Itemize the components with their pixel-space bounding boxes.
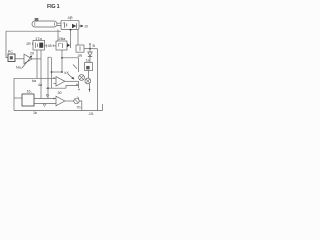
photocell PC box bbox=[8, 54, 15, 62]
svg-text:28a: 28a bbox=[59, 36, 66, 41]
label 10 bbox=[84, 24, 88, 28]
svg-text:1R l: 1R l bbox=[26, 42, 33, 46]
wire comparator lower input rails bbox=[34, 99, 56, 104]
label 1Rl bbox=[26, 42, 33, 46]
transistor Q1 bbox=[79, 75, 85, 81]
feedback arrow Na bbox=[22, 56, 33, 69]
wire long rail left bbox=[14, 77, 56, 79]
svg-text:30: 30 bbox=[58, 91, 62, 95]
svg-text:4a: 4a bbox=[38, 83, 43, 87]
wire bottom rail bbox=[14, 110, 103, 112]
battery cell symbol bbox=[63, 22, 67, 27]
label 1a bbox=[86, 59, 91, 63]
regulator box 2B bbox=[56, 41, 67, 50]
output stub with arrow, node 10 bbox=[79, 25, 84, 28]
junction node o bbox=[47, 94, 49, 96]
supply box 41 bbox=[61, 20, 79, 29]
transistor symbol right of 2B bbox=[67, 43, 70, 49]
wire top rail bbox=[6, 30, 61, 32]
vertical bus D bbox=[51, 58, 53, 88]
wire right drop from output bbox=[78, 81, 80, 88]
wire transistors down bbox=[89, 84, 91, 92]
wire PC to amp bbox=[15, 58, 24, 60]
node B tick bbox=[89, 43, 90, 48]
label 45l bbox=[48, 44, 54, 48]
label 1X bbox=[65, 71, 70, 75]
wire bottom right corner up bbox=[102, 104, 104, 111]
svg-text:2R: 2R bbox=[78, 54, 83, 58]
driver box 1a bbox=[85, 63, 93, 71]
comparator 30 upper bbox=[53, 77, 65, 86]
wire right rail bbox=[97, 49, 99, 111]
svg-text:16,: 16, bbox=[27, 90, 32, 94]
wire 17a to 2B with label 45l bbox=[44, 44, 56, 48]
wire upper branch to transistors bbox=[66, 86, 79, 89]
svg-text:10: 10 bbox=[84, 24, 88, 28]
wire left drop bbox=[13, 78, 15, 110]
label 16 bbox=[27, 90, 32, 94]
wire mid rail y88 bbox=[46, 87, 66, 89]
svg-text:FIG 1: FIG 1 bbox=[47, 4, 60, 10]
label 28a bbox=[59, 36, 66, 41]
wire box 1a to transistors bbox=[88, 71, 90, 79]
wire comparator upper output bbox=[65, 80, 79, 82]
label 2R bbox=[78, 54, 83, 58]
title FIG 1 bbox=[47, 4, 60, 10]
label Na bbox=[16, 66, 22, 70]
wire capsule to supply box (two leads) bbox=[57, 23, 61, 25]
wire into motor box bbox=[14, 97, 22, 99]
motor box 16 bbox=[22, 94, 34, 106]
vertical bus C bbox=[47, 57, 51, 99]
label 1b bbox=[33, 111, 37, 115]
wire 2R to right rail bbox=[84, 48, 98, 50]
wire lower comparator output bbox=[65, 100, 74, 102]
wire from supply to 2R box bbox=[77, 30, 79, 46]
label B bbox=[93, 44, 96, 48]
wire lamp to bottom rail bbox=[79, 101, 82, 111]
svg-text:4R: 4R bbox=[68, 15, 73, 20]
lamp symbol 7b bbox=[74, 97, 79, 104]
comparator 30 lower bbox=[53, 96, 65, 106]
leads supply box to 2B box bbox=[58, 29, 71, 43]
wire 2B bottom lead down bbox=[61, 50, 63, 72]
label 4R bbox=[68, 15, 73, 21]
converter box 17a bbox=[33, 40, 45, 50]
wire amp output bbox=[32, 58, 41, 60]
transistor Q2 bbox=[85, 78, 91, 84]
label 4a bbox=[38, 83, 43, 87]
label 20 bbox=[30, 52, 34, 56]
svg-text:kX: kX bbox=[65, 71, 70, 75]
svg-text:ba: ba bbox=[32, 79, 37, 83]
svg-text:45 l: 45 l bbox=[48, 44, 54, 48]
wire branch right to x78 bbox=[62, 58, 79, 72]
vertical bus B bbox=[40, 50, 42, 99]
svg-text:Na: Na bbox=[16, 66, 22, 70]
vertical bus A bbox=[36, 50, 38, 78]
svg-text:20: 20 bbox=[30, 52, 34, 56]
svg-text:PC: PC bbox=[8, 50, 13, 54]
diode D1 in supply box bbox=[72, 23, 77, 28]
svg-text:.15.: .15. bbox=[88, 112, 94, 116]
zener diode 14 bbox=[88, 49, 92, 63]
mark triangle on lower rail bbox=[43, 104, 46, 107]
label 15 bbox=[88, 112, 94, 116]
wire y72 link bbox=[52, 71, 63, 73]
sensor capsule 40 bbox=[32, 18, 57, 27]
svg-text:B: B bbox=[93, 44, 96, 48]
resistor box 2R bbox=[76, 45, 84, 52]
label PC bbox=[8, 50, 13, 54]
label 17a bbox=[35, 36, 42, 41]
wire left frame bbox=[6, 31, 8, 57]
svg-text:7b: 7b bbox=[77, 106, 81, 110]
svg-text:1b: 1b bbox=[33, 111, 37, 115]
transistor arrows bbox=[68, 65, 77, 80]
tick marks near transistors bbox=[76, 84, 80, 91]
label 30 bbox=[58, 91, 62, 95]
label ba bbox=[32, 79, 37, 83]
op-amp 20 bbox=[24, 54, 32, 63]
label 7b bbox=[77, 106, 81, 110]
